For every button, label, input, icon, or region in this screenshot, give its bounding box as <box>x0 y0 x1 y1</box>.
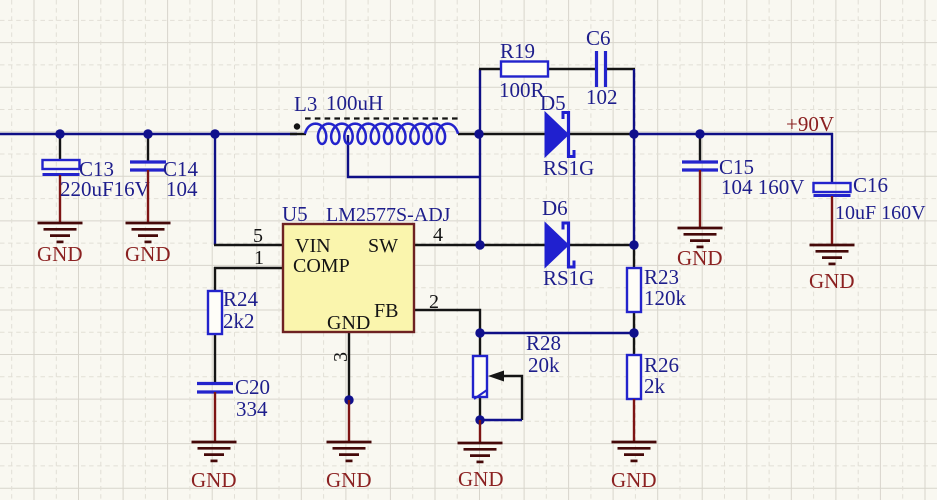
node: C15 top <box>695 129 704 138</box>
wire: COMP to R24 <box>214 267 216 292</box>
svg-text:GND: GND <box>611 468 657 492</box>
pin number 2 <box>429 291 439 313</box>
wire: D6 cathode to divider column <box>569 244 634 246</box>
svg-text:10uF 160V: 10uF 160V <box>835 202 926 224</box>
pin name COMP <box>293 255 350 277</box>
capacitor C15 <box>682 134 804 228</box>
svg-text:VIN: VIN <box>295 235 331 257</box>
wire: R26 to ground <box>633 399 635 442</box>
wire: feedback top row left vertical <box>479 69 481 135</box>
wire: GND pin3 from chip <box>348 332 350 400</box>
node: R28 bottom <box>475 415 484 424</box>
svg-text:4: 4 <box>433 224 443 246</box>
wire: R19/C6 top row <box>479 68 635 70</box>
svg-text:L3: L3 <box>294 92 317 116</box>
ground C15 <box>677 228 723 270</box>
pin number 5 <box>253 225 263 247</box>
ground C13 <box>37 223 83 266</box>
diode D5 <box>540 91 594 180</box>
svg-text:D6: D6 <box>542 196 568 220</box>
wire: R28 wiper loop <box>481 376 522 420</box>
svg-text:5: 5 <box>253 225 263 247</box>
svg-text:334: 334 <box>236 397 268 421</box>
net label +90V <box>786 112 834 136</box>
svg-text:R24: R24 <box>223 287 259 311</box>
node: FB divider right <box>629 328 638 337</box>
ground C20 <box>191 442 237 492</box>
svg-text:102: 102 <box>586 85 618 109</box>
wire: FB node to R28 top <box>479 333 481 356</box>
wire: D5 cathode to output node <box>569 133 634 135</box>
wire: L3 right pin to D5 anode node <box>458 133 545 135</box>
svg-text:RS1G: RS1G <box>543 156 594 180</box>
ground R28 <box>458 443 504 491</box>
op-amp U5 LM2577S-ADJ body <box>282 202 451 332</box>
wire: FB node horizontal <box>480 332 634 334</box>
svg-text:FB: FB <box>374 300 398 322</box>
ground C14 <box>125 223 171 266</box>
node: pin3 wire <box>344 395 353 404</box>
wire: inductor tap down and across <box>348 135 480 177</box>
ground U5 pin3 <box>326 442 372 492</box>
svg-text:COMP: COMP <box>293 255 350 277</box>
wire: pin1 COMP horizontal <box>214 267 284 269</box>
inductor L3 <box>290 91 459 144</box>
svg-text:GND: GND <box>458 467 504 491</box>
wire: R28 node to ground <box>479 420 481 443</box>
svg-text:GND: GND <box>37 242 83 266</box>
wire: node column down to SW pin <box>479 135 481 245</box>
wire: FB pin2 from chip <box>414 310 480 333</box>
pin name VIN <box>295 235 331 257</box>
capacitor C16 <box>814 173 927 245</box>
pin number 3 <box>330 352 352 362</box>
svg-text:GND: GND <box>327 312 370 334</box>
diode D6 <box>542 196 594 290</box>
node: FB divider left <box>475 328 484 337</box>
wire: output rail to +90V corner <box>634 133 833 184</box>
svg-text:GND: GND <box>677 246 723 270</box>
wire: divider node to R23 <box>633 245 635 269</box>
svg-text:R19: R19 <box>500 39 535 63</box>
wire: SW pin to D6 anode <box>480 244 545 246</box>
pin number 1 <box>254 247 264 269</box>
svg-text:C20: C20 <box>235 375 270 399</box>
pin name SW <box>368 235 398 257</box>
svg-text:C16: C16 <box>853 173 888 197</box>
svg-text:104: 104 <box>166 177 198 201</box>
resistor R26 <box>627 353 679 399</box>
capacitor C20 <box>197 375 270 442</box>
svg-text:100uH: 100uH <box>326 91 383 115</box>
svg-text:220uF16V: 220uF16V <box>60 177 150 201</box>
svg-text:2: 2 <box>429 291 439 313</box>
svg-text:120k: 120k <box>644 286 687 310</box>
ground C16 <box>809 245 855 293</box>
wire: SW pin4 from chip <box>414 244 480 246</box>
wire: main input rail <box>0 133 297 135</box>
wire: FB node to R26 <box>633 333 635 356</box>
wire: R24 to C20 <box>214 334 216 383</box>
svg-text:R28: R28 <box>526 331 561 355</box>
wire: right column C6/R19 down through D5,D6 cathodes <box>633 69 635 246</box>
pin name GND <box>327 312 370 334</box>
node: D6 cathode <box>629 240 638 249</box>
svg-text:2k: 2k <box>644 374 666 398</box>
wire: pin5 VIN horizontal <box>214 244 284 246</box>
capacitor C6 <box>586 26 618 109</box>
node: input rail / VIN branch <box>55 129 219 138</box>
ground R26 <box>611 442 657 492</box>
wire: R28 bottom to ground node <box>479 397 481 421</box>
capacitor C14 <box>130 134 199 223</box>
node: SW / D6 anode <box>475 240 484 249</box>
svg-text:20k: 20k <box>528 353 560 377</box>
svg-text:C6: C6 <box>586 26 611 50</box>
pin name FB <box>374 300 398 322</box>
svg-text:2k2: 2k2 <box>223 309 255 333</box>
svg-text:GND: GND <box>809 269 855 293</box>
potentiometer R28 <box>473 331 561 399</box>
wire: pin3 to ground <box>348 400 350 442</box>
svg-text:GND: GND <box>326 468 372 492</box>
capacitor C13 <box>43 134 150 223</box>
svg-text:SW: SW <box>368 235 398 257</box>
resistor R24 <box>208 287 259 334</box>
wire: VIN branch vertical <box>214 134 216 245</box>
wire: R23 bottom to FB node <box>633 312 635 334</box>
node: L3 output <box>474 129 483 138</box>
svg-text:1: 1 <box>254 247 264 269</box>
svg-text:100R: 100R <box>499 78 545 102</box>
svg-text:+90V: +90V <box>786 112 834 136</box>
svg-text:RS1G: RS1G <box>543 266 594 290</box>
svg-text:GND: GND <box>125 242 171 266</box>
pin number 4 <box>433 224 443 246</box>
node: D5 cathode / output <box>629 129 638 138</box>
resistor R23 <box>627 265 687 312</box>
svg-text:104 160V: 104 160V <box>721 175 804 199</box>
svg-text:LM2577S-ADJ: LM2577S-ADJ <box>326 204 451 226</box>
svg-text:GND: GND <box>191 468 237 492</box>
svg-text:D5: D5 <box>540 91 566 115</box>
svg-text:3: 3 <box>330 352 352 362</box>
resistor R19 <box>499 39 548 102</box>
svg-text:U5: U5 <box>282 202 308 226</box>
